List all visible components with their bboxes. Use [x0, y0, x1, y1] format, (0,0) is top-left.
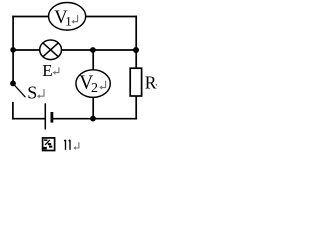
wire right rail (top section)	[135, 17, 137, 69]
switch S blade	[14, 84, 26, 97]
node junction middle rail / right rail	[133, 47, 139, 53]
wire lower left rail	[12, 103, 14, 119]
paragraph return mark after V1	[73, 15, 77, 22]
paragraph return mark after S	[39, 89, 44, 96]
wire right rail (below resistor)	[135, 96, 137, 119]
lamp E circle	[40, 40, 62, 60]
paragraph return mark after V2	[101, 81, 105, 88]
wire voltmeter V2 branch	[92, 50, 94, 119]
wire middle rail	[13, 49, 136, 51]
voltmeter V1 circle	[49, 2, 86, 30]
wire bottom rail right of battery	[53, 118, 136, 120]
voltmeter V2 circle	[76, 70, 110, 98]
svg-text:2: 2	[91, 81, 98, 96]
lamp E cross	[43, 43, 58, 57]
paragraph return mark after E	[55, 67, 59, 72]
paragraph return mark after caption	[75, 142, 79, 148]
node junction middle rail / V2 branch	[90, 47, 96, 53]
svg-text:S: S	[27, 83, 37, 103]
battery short thick plate	[51, 112, 54, 123]
caption number 11	[64, 140, 70, 150]
wire top rail	[13, 16, 136, 18]
svg-text:1: 1	[65, 13, 72, 28]
svg-text:E: E	[42, 61, 52, 80]
battery long plate	[44, 103, 46, 129]
node junction left (middle rail to left rail)	[10, 47, 16, 53]
switch S fixed contact dot	[10, 81, 16, 87]
paragraph return mark after R (cut off at edge)	[155, 83, 158, 87]
caption character tu (figure) drawn as strokes	[43, 138, 55, 151]
svg-text:R: R	[145, 72, 157, 92]
node junction bottom rail / V2 branch	[90, 116, 96, 122]
wire left rail	[12, 17, 14, 84]
resistor R body	[130, 68, 141, 96]
wire bottom rail left of battery	[13, 118, 45, 120]
